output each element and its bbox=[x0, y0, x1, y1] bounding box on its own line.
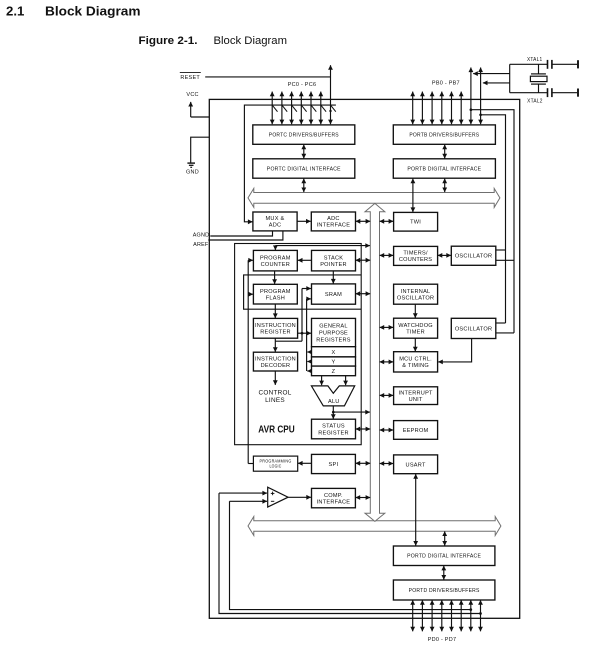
svg-text:ADC: ADC bbox=[269, 223, 282, 229]
wire vertical bus to TWI (bidirectional) bbox=[380, 220, 394, 222]
svg-text:Y: Y bbox=[332, 359, 336, 365]
register PROGRAM COUNTER bbox=[253, 250, 297, 271]
svg-text:Z: Z bbox=[332, 369, 336, 375]
wire XTAL1 lead with arrow into PB6 line bbox=[473, 73, 510, 75]
wire TWI to PORTB digital interface (crosses bus) bbox=[412, 179, 414, 212]
node junction positive input at PD7 bbox=[479, 612, 482, 615]
svg-text:AGND: AGND bbox=[193, 233, 210, 239]
wire riser arrow into PROGRAM FLASH left bbox=[248, 293, 253, 295]
wire ALU to STATUS REGISTER bbox=[332, 406, 334, 419]
svg-text:XTAL1: XTAL1 bbox=[527, 57, 543, 63]
alu ALU (V-shaped block) bbox=[311, 386, 354, 406]
block ADC INTERFACE bbox=[311, 212, 355, 231]
pin PC1 (bidirectional arrow) bbox=[281, 92, 283, 125]
block PORTD DIGITAL INTERFACE bbox=[393, 546, 495, 566]
pin PD2 (bidirectional arrow) bbox=[431, 600, 433, 631]
block PORTC DIGITAL INTERFACE bbox=[253, 159, 355, 178]
pin PC3 (bidirectional arrow) bbox=[300, 92, 302, 125]
svg-text:FLASH: FLASH bbox=[266, 295, 285, 301]
wire vertical bus to INTERRUPT UNIT (bidirectional) bbox=[380, 394, 394, 396]
svg-text:POINTER: POINTER bbox=[320, 262, 347, 268]
block PROGRAMMING LOGIC bbox=[253, 456, 297, 471]
wire feed down into PROGRAM COUNTER top bbox=[274, 246, 276, 250]
register Z bbox=[312, 366, 356, 376]
svg-text:INSTRUCTION: INSTRUCTION bbox=[255, 356, 296, 362]
wire INSTRUCTION REGISTER to INSTRUCTION DECODER bbox=[274, 338, 276, 352]
pin AGND bbox=[193, 231, 273, 238]
svg-text:INSTRUCTION: INSTRUCTION bbox=[255, 323, 296, 329]
block INTERRUPT UNIT bbox=[394, 387, 438, 405]
wire C1 to ground bbox=[552, 63, 577, 65]
svg-text:VCC: VCC bbox=[186, 92, 198, 98]
svg-text:RESET: RESET bbox=[180, 75, 200, 81]
pin PC4 (bidirectional arrow) bbox=[310, 92, 312, 125]
block SPI bbox=[312, 454, 356, 473]
bus DATA-BUS-VERTICAL (8-bit vertical bus) bbox=[365, 203, 385, 521]
wire indirect addressing line X/Y/Z to SRAM bbox=[307, 299, 312, 371]
wire analog-input rail to ADC mux bbox=[244, 105, 336, 222]
svg-text:USART: USART bbox=[406, 462, 426, 468]
wire XTAL2 lead with arrow into PB7 line bbox=[483, 82, 510, 84]
wire comparator positive input bbox=[219, 492, 267, 494]
svg-text:X: X bbox=[332, 350, 336, 356]
svg-text:PROGRAM: PROGRAM bbox=[260, 255, 291, 261]
block AVR CPU enclosure bbox=[235, 244, 362, 445]
block USART bbox=[394, 455, 438, 474]
wire analog tap slash PC4 bbox=[311, 105, 316, 112]
wire COMP. INTERFACE to vertical bus (bidirectional) bbox=[356, 497, 371, 499]
block PORTC DRIVERS/BUFFERS bbox=[253, 125, 355, 144]
wire PORTD digital interface to drivers (bidirectional) bbox=[443, 566, 445, 580]
wire ALU output branch to vertical bus bbox=[333, 411, 370, 413]
wire OSC1 upper stub to XTAL2 branch bbox=[496, 249, 506, 251]
pin PC0 (bidirectional arrow) bbox=[271, 92, 273, 125]
svg-text:ADC: ADC bbox=[327, 216, 340, 222]
svg-text:PORTD DRIVERS/BUFFERS: PORTD DRIVERS/BUFFERS bbox=[409, 588, 480, 594]
svg-text:LINES: LINES bbox=[265, 397, 285, 404]
svg-text:COUNTERS: COUNTERS bbox=[399, 257, 432, 263]
pin PD5 (bidirectional arrow) bbox=[460, 600, 462, 631]
svg-text:TIMERS/: TIMERS/ bbox=[403, 251, 428, 257]
wire VCC to chip border bbox=[191, 116, 210, 118]
svg-text:PORTB DIGITAL INTERFACE: PORTB DIGITAL INTERFACE bbox=[407, 166, 481, 172]
svg-text:INTERRUPT: INTERRUPT bbox=[398, 390, 433, 396]
block INSTRUCTION DECODER bbox=[253, 352, 297, 371]
pin RESET (active low, overline) bbox=[180, 73, 201, 82]
svg-text:AREF: AREF bbox=[193, 242, 209, 248]
ground terminal bar (C2) bbox=[577, 89, 579, 97]
svg-text:PB0 - PB7: PB0 - PB7 bbox=[432, 80, 460, 86]
wire bus to PROGRAM COUNTER (horizontal feed) bbox=[275, 245, 370, 247]
svg-text:COMP.: COMP. bbox=[324, 493, 343, 499]
wire SPI to vertical bus (bidirectional) bbox=[356, 462, 371, 464]
wire OSC2 to MCU CTRL & TIMING bbox=[438, 339, 471, 362]
svg-text:PORTB DRIVERS/BUFFERS: PORTB DRIVERS/BUFFERS bbox=[409, 133, 479, 139]
wire PROGRAMMING LOGIC riser to flash/counter bbox=[247, 260, 249, 463]
wire analog tap slash PC5 bbox=[321, 105, 326, 112]
comparator U2 (analog comparator + -) bbox=[268, 487, 288, 507]
svg-text:TIMER: TIMER bbox=[406, 329, 425, 335]
crystal Y1 bbox=[530, 64, 547, 92]
pin PB6 / XTAL1 line (taller bidirectional arrow) bbox=[470, 68, 472, 125]
svg-text:EEPROM: EEPROM bbox=[403, 428, 429, 434]
wire INSTRUCTION REGISTER to GENERAL PURPOSE REGISTERS bbox=[298, 332, 311, 334]
svg-text:MUX &: MUX & bbox=[266, 216, 285, 222]
wire SRAM to vertical bus (bidirectional) bbox=[356, 293, 371, 295]
block COMP. INTERFACE bbox=[312, 488, 356, 507]
capacitor C2 (XTAL2 load cap) bbox=[548, 88, 552, 97]
svg-text:Block Diagram: Block Diagram bbox=[214, 35, 288, 47]
svg-text:COUNTER: COUNTER bbox=[261, 262, 290, 268]
pin PB7 / XTAL2 line (taller bidirectional arrow) bbox=[480, 68, 482, 125]
svg-text:SRAM: SRAM bbox=[325, 292, 342, 298]
svg-text:STATUS: STATUS bbox=[322, 424, 345, 430]
svg-text:PORTC DRIVERS/BUFFERS: PORTC DRIVERS/BUFFERS bbox=[269, 133, 339, 139]
svg-text:PURPOSE: PURPOSE bbox=[319, 331, 348, 337]
wire GND branch from chip border bbox=[191, 137, 210, 163]
svg-text:PD0 - PD7: PD0 - PD7 bbox=[428, 637, 457, 643]
svg-text:GND: GND bbox=[186, 170, 199, 176]
svg-text:OSCILLATOR: OSCILLATOR bbox=[455, 326, 492, 332]
wire bottom bus to PORTD digital interface (bidirectional) bbox=[444, 531, 446, 545]
memory EEPROM bbox=[394, 421, 438, 440]
memory SRAM bbox=[312, 284, 356, 304]
register INSTRUCTION REGISTER bbox=[253, 318, 297, 338]
chip boundary U1 (device border) bbox=[209, 99, 519, 618]
wire CPU feedback loop (program counter rail) bbox=[244, 275, 362, 309]
wire positive input down-run to PD7 bbox=[219, 493, 481, 613]
svg-text:GENERAL: GENERAL bbox=[319, 324, 347, 330]
pin PC5 (bidirectional arrow) bbox=[320, 92, 322, 125]
wire comparator output to COMP. INTERFACE bbox=[288, 496, 311, 498]
label CONTROL LINES bbox=[259, 390, 292, 405]
wire crystal loop left vertical bbox=[509, 64, 511, 92]
svg-text:CONTROL: CONTROL bbox=[259, 390, 292, 397]
block PORTB DIGITAL INTERFACE bbox=[393, 159, 495, 178]
svg-text:PROGRAM: PROGRAM bbox=[260, 289, 291, 295]
wire INSTRUCTION DECODER to control lines bbox=[274, 371, 276, 385]
node XTAL2 junction on PB7 line bbox=[479, 113, 482, 116]
wire MUX & ADC to ADC INTERFACE bbox=[297, 220, 310, 222]
pin PD0 (bidirectional arrow) bbox=[412, 600, 414, 631]
wire WATCHDOG TIMER to MCU CTRL & TIMING bbox=[414, 338, 416, 351]
wire PORTB digital interface to top bus (bidirectional) bbox=[444, 179, 446, 193]
svg-text:ALU: ALU bbox=[328, 399, 340, 405]
oscillator OSC2 (main oscillator) bbox=[451, 318, 496, 338]
pin PD6 (bidirectional arrow) bbox=[470, 600, 472, 631]
wire vertical bus to MCU CTRL & TIMING (bidirectional) bbox=[380, 361, 394, 363]
block MCU CTRL. & TIMING bbox=[394, 352, 438, 372]
wire vertical bus to WATCHDOG TIMER (bidirectional) bbox=[380, 326, 394, 328]
pin PD3 (bidirectional arrow) bbox=[441, 600, 443, 631]
node ALU output branch junction bbox=[332, 411, 335, 414]
pin PD1 (bidirectional arrow) bbox=[421, 600, 423, 631]
wire analog tap slash PC6 bbox=[331, 105, 336, 112]
wire PORTC drivers to digital interface (bidirectional) bbox=[303, 145, 305, 159]
wire Z register to ALU operand A bbox=[321, 376, 323, 385]
wire XTAL1 branch to oscillator column bbox=[471, 110, 514, 333]
svg-text:INTERNAL: INTERNAL bbox=[401, 289, 431, 295]
capacitor C1 (XTAL1 load cap) bbox=[548, 60, 552, 69]
svg-text:TWI: TWI bbox=[410, 220, 421, 226]
memory PROGRAM FLASH bbox=[253, 284, 297, 304]
svg-text:REGISTER: REGISTER bbox=[260, 330, 291, 336]
wire analog tap slash PC0 bbox=[272, 105, 277, 112]
wire STACK POINTER to SRAM bbox=[332, 271, 334, 284]
node XTAL1 junction on PB6 line bbox=[470, 108, 473, 111]
svg-text:STACK: STACK bbox=[324, 255, 344, 261]
svg-text:XTAL2: XTAL2 bbox=[527, 98, 543, 104]
wire TIMERS/COUNTERS to OSC1 (bidirectional) bbox=[438, 254, 451, 256]
register GENERAL PURPOSE REGISTERS bbox=[312, 318, 356, 346]
svg-text:LOGIC: LOGIC bbox=[270, 463, 282, 468]
wire ADC INTERFACE to vertical bus (bidirectional) bbox=[356, 220, 371, 222]
section heading 2.1 Block Diagram bbox=[6, 4, 141, 19]
wire PORTB drivers to digital interface (bidirectional) bbox=[444, 145, 446, 159]
wire analog tap slash PC1 bbox=[282, 105, 287, 112]
ground GND symbol bbox=[186, 163, 199, 176]
wire SPI to PROGRAMMING LOGIC bbox=[298, 462, 312, 464]
svg-text:MCU CTRL.: MCU CTRL. bbox=[399, 357, 432, 363]
pin PB1 (bidirectional arrow) bbox=[421, 92, 423, 125]
wire XTAL2 branch to oscillator column bbox=[481, 115, 506, 323]
wire crystal top rail bbox=[510, 63, 547, 65]
block PORTB DRIVERS/BUFFERS bbox=[393, 125, 495, 144]
wire comparator negative input bbox=[230, 500, 268, 502]
block TWI bbox=[394, 212, 438, 231]
svg-text:INTERFACE: INTERFACE bbox=[317, 499, 351, 505]
pin AREF bbox=[193, 231, 283, 248]
svg-text:Figure 2-1.: Figure 2-1. bbox=[139, 35, 198, 47]
bus DATA-BUS-TOP (8-bit horizontal bus) bbox=[248, 188, 500, 207]
register Y bbox=[312, 357, 356, 366]
wire direct addressing line to SRAM bbox=[275, 289, 311, 342]
pin PB0 (bidirectional arrow) bbox=[412, 92, 414, 125]
wire USART to PORTD digital interface (crosses bottom bus) bbox=[415, 474, 417, 545]
svg-text:& TIMING: & TIMING bbox=[402, 363, 429, 369]
register STACK POINTER bbox=[312, 250, 356, 271]
svg-text:REGISTERS: REGISTERS bbox=[316, 337, 351, 343]
wire analog tap slash PC3 bbox=[301, 105, 306, 112]
wire riser arrow into PROGRAM COUNTER left bbox=[248, 259, 253, 261]
wire STACK POINTER to vertical bus (bidirectional) bbox=[356, 259, 371, 261]
pin PD7 (bidirectional arrow) bbox=[480, 600, 482, 631]
wire STATUS REGISTER to vertical bus (bidirectional) bbox=[356, 428, 371, 430]
svg-text:OSCILLATOR: OSCILLATOR bbox=[397, 295, 434, 301]
svg-text:2.1: 2.1 bbox=[6, 4, 24, 19]
svg-text:REGISTER: REGISTER bbox=[318, 430, 349, 436]
svg-text:PC0 - PC6: PC0 - PC6 bbox=[288, 82, 317, 88]
wire Z register to ALU operand B bbox=[345, 376, 347, 385]
block WATCHDOG TIMER bbox=[394, 318, 438, 338]
svg-text:INTERFACE: INTERFACE bbox=[317, 223, 351, 229]
wire riser to PROGRAMMING LOGIC bbox=[248, 463, 253, 465]
wire vertical bus to USART (bidirectional) bbox=[380, 463, 394, 465]
wire PROGRAM COUNTER to PROGRAM FLASH bbox=[274, 271, 276, 284]
pin PD4 (bidirectional arrow) bbox=[451, 600, 453, 631]
pin PC2 (bidirectional arrow) bbox=[291, 92, 293, 125]
wire analog tap slash PC2 bbox=[292, 105, 297, 112]
node junction on direct-address line bbox=[301, 332, 304, 335]
block INTERNAL OSCILLATOR bbox=[394, 284, 438, 304]
svg-text:Block Diagram: Block Diagram bbox=[45, 4, 141, 19]
svg-text:DECODER: DECODER bbox=[261, 363, 291, 369]
wire PORTC digital interface to top bus (bidirectional) bbox=[303, 179, 305, 193]
wire RESET to PC6 pin line bbox=[205, 76, 330, 78]
ground terminal bar (C1) bbox=[577, 60, 579, 68]
pin PC6 / RESET line (taller bidirectional arrow) bbox=[330, 65, 332, 124]
wire INTERNAL OSCILLATOR to WATCHDOG TIMER bbox=[414, 304, 416, 318]
register X bbox=[312, 347, 356, 357]
wire C2 to ground bbox=[552, 92, 577, 94]
svg-text:WATCHDOG: WATCHDOG bbox=[398, 323, 433, 329]
register STATUS REGISTER bbox=[312, 419, 356, 439]
svg-text:OSCILLATOR: OSCILLATOR bbox=[455, 254, 492, 260]
wire vertical bus to TIMERS/COUNTERS (bidirectional) bbox=[380, 254, 394, 256]
wire PROGRAM FLASH to INSTRUCTION REGISTER bbox=[274, 304, 276, 318]
bus DATA-BUS-BOTTOM (8-bit horizontal bus) bbox=[248, 517, 501, 536]
svg-text:PORTD DIGITAL INTERFACE: PORTD DIGITAL INTERFACE bbox=[407, 554, 481, 560]
node junction negative input at PD6 bbox=[469, 608, 472, 611]
svg-text:PORTC DIGITAL INTERFACE: PORTC DIGITAL INTERFACE bbox=[267, 166, 341, 172]
node analog tap junction at PC6 bbox=[329, 110, 331, 112]
pin PB5 (bidirectional arrow) bbox=[460, 92, 462, 125]
wire crystal bottom rail bbox=[510, 92, 547, 94]
oscillator OSC1 (timer oscillator) bbox=[451, 246, 496, 265]
wire negative input down-run to PD6 bbox=[230, 501, 471, 609]
block MUX & ADC bbox=[253, 212, 297, 231]
wire OSC2 lower stub to XTAL1 branch bbox=[496, 332, 514, 334]
wire vertical bus to EEPROM (bidirectional) bbox=[380, 429, 394, 431]
svg-text:UNIT: UNIT bbox=[409, 397, 423, 403]
pin VCC bbox=[186, 92, 198, 117]
wire STACK POINTER to PROGRAM COUNTER bbox=[298, 259, 312, 261]
figure caption Figure 2-1. Block Diagram bbox=[139, 35, 288, 47]
block PORTD DRIVERS/BUFFERS bbox=[393, 580, 495, 600]
wire OSC2 upper stub to XTAL2 branch bbox=[496, 322, 506, 324]
svg-text:AVR CPU: AVR CPU bbox=[258, 425, 295, 436]
svg-text:SPI: SPI bbox=[329, 462, 339, 468]
pin PB3 (bidirectional arrow) bbox=[441, 92, 443, 125]
pin PB2 (bidirectional arrow) bbox=[431, 92, 433, 125]
wire OSC1 lower stub to XTAL1 branch bbox=[496, 259, 514, 261]
pin PB4 (bidirectional arrow) bbox=[451, 92, 453, 125]
block TIMERS/COUNTERS bbox=[394, 246, 438, 265]
